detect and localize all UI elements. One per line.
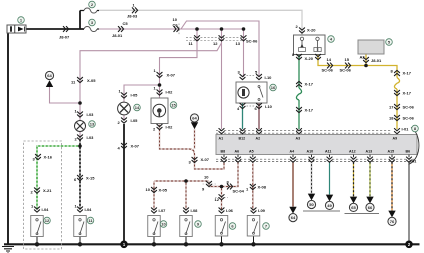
svg-text:B8: B8	[221, 149, 226, 153]
svg-text:SC-04: SC-04	[233, 189, 245, 194]
svg-text:15: 15	[345, 57, 350, 62]
svg-text:I-02: I-02	[166, 125, 174, 130]
svg-text:B6: B6	[406, 149, 411, 153]
svg-text:17: 17	[389, 105, 394, 110]
svg-text:13: 13	[90, 122, 95, 127]
svg-text:I-03: I-03	[87, 135, 95, 140]
svg-text:X-20: X-20	[305, 56, 314, 61]
svg-text:64: 64	[47, 73, 52, 78]
svg-text:14: 14	[327, 57, 332, 62]
svg-text:SC-06: SC-06	[340, 68, 352, 73]
svg-text:SC-06: SC-06	[246, 39, 258, 44]
svg-text:J8-01: J8-01	[371, 58, 382, 63]
svg-text:66: 66	[368, 205, 373, 210]
svg-text:I-04: I-04	[85, 207, 93, 212]
svg-text:A11: A11	[325, 149, 331, 153]
svg-text:X-16: X-16	[44, 155, 53, 160]
svg-text:I-08: I-08	[191, 208, 199, 213]
svg-text:50: 50	[309, 202, 314, 207]
svg-text:J8-01: J8-01	[112, 33, 123, 38]
svg-text:10: 10	[204, 175, 209, 180]
svg-text:X-05: X-05	[159, 188, 168, 193]
svg-text:A2: A2	[360, 55, 366, 60]
svg-text:C5: C5	[123, 21, 129, 26]
svg-text:SC-06: SC-06	[403, 105, 415, 110]
svg-text:J8-03: J8-03	[127, 14, 138, 19]
svg-text:I-06: I-06	[226, 208, 234, 213]
svg-text:X-21: X-21	[43, 188, 52, 193]
svg-text:A13: A13	[366, 149, 373, 153]
svg-text:I-02: I-02	[166, 90, 174, 95]
svg-text:A1: A1	[219, 137, 224, 141]
svg-text:A5: A5	[249, 149, 254, 153]
svg-text:I-10: I-10	[265, 75, 273, 80]
svg-text:A12: A12	[349, 149, 356, 153]
svg-text:X-17: X-17	[403, 91, 412, 96]
svg-text:X-20: X-20	[307, 28, 316, 33]
svg-text:X-08: X-08	[258, 185, 267, 190]
svg-text:I-07: I-07	[159, 208, 167, 213]
svg-text:I-10: I-10	[265, 104, 273, 109]
svg-text:SC-06: SC-06	[322, 68, 334, 73]
svg-text:A3: A3	[296, 137, 301, 141]
svg-text:A10: A10	[307, 149, 314, 153]
svg-text:10: 10	[161, 222, 166, 227]
svg-text:I-05: I-05	[131, 118, 139, 123]
svg-text:12: 12	[45, 218, 50, 223]
svg-text:X-15: X-15	[86, 176, 95, 181]
svg-text:10: 10	[173, 17, 178, 22]
svg-text:X-17: X-17	[305, 108, 314, 113]
svg-text:I-04: I-04	[42, 207, 50, 212]
svg-text:A2: A2	[256, 137, 261, 141]
svg-text:10: 10	[146, 187, 151, 192]
svg-text:B12: B12	[239, 137, 246, 141]
svg-text:64: 64	[291, 215, 296, 220]
svg-text:18: 18	[389, 116, 394, 121]
svg-text:SC-06: SC-06	[403, 116, 415, 121]
svg-text:X-05: X-05	[87, 78, 96, 83]
svg-text:12: 12	[215, 197, 220, 202]
svg-text:I-01: I-01	[402, 127, 410, 132]
svg-text:A9: A9	[393, 137, 398, 141]
svg-text:14: 14	[135, 105, 140, 110]
svg-text:A4: A4	[290, 149, 295, 153]
svg-text:X-17: X-17	[403, 71, 412, 76]
svg-text:64: 64	[192, 116, 197, 121]
svg-text:X-07: X-07	[167, 73, 176, 78]
svg-text:X-07: X-07	[201, 157, 210, 162]
svg-text:X-07: X-07	[131, 144, 140, 149]
svg-text:J8-07: J8-07	[59, 35, 70, 40]
svg-text:I-01: I-01	[410, 159, 418, 164]
svg-text:16: 16	[271, 85, 276, 90]
svg-text:A15: A15	[388, 149, 395, 153]
svg-text:49: 49	[327, 203, 332, 208]
svg-text:76: 76	[390, 219, 395, 224]
svg-text:13: 13	[236, 41, 241, 46]
svg-text:65: 65	[351, 205, 356, 210]
svg-text:12: 12	[213, 41, 218, 46]
svg-text:I-03: I-03	[87, 112, 95, 117]
svg-text:C6: C6	[173, 23, 179, 28]
svg-text:I-05: I-05	[131, 93, 139, 98]
svg-text:15: 15	[171, 103, 176, 108]
svg-text:I-09: I-09	[258, 208, 266, 213]
svg-text:A6: A6	[235, 149, 240, 153]
svg-text:X-17: X-17	[305, 82, 314, 87]
